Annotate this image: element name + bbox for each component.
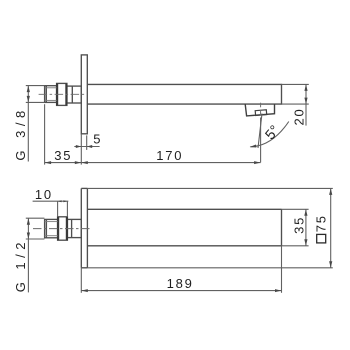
svg-text:G 3/8: G 3/8 (13, 106, 28, 160)
svg-text:75: 75 (314, 214, 329, 232)
svg-text:35: 35 (292, 216, 307, 234)
svg-text:5: 5 (93, 132, 102, 147)
svg-text:G 1/2: G 1/2 (13, 238, 28, 292)
svg-text:10: 10 (35, 187, 53, 202)
svg-text:20: 20 (291, 107, 306, 125)
svg-text:189: 189 (167, 276, 194, 291)
svg-text:35: 35 (54, 148, 72, 163)
svg-text:170: 170 (156, 148, 183, 163)
